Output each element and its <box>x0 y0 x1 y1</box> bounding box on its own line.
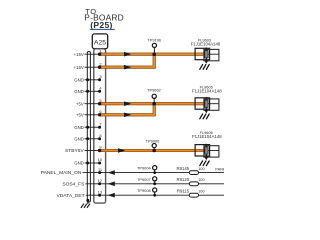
pin 12 junction dot <box>98 182 101 185</box>
svg-text:TP9004: TP9004 <box>137 166 151 171</box>
svg-text:+15V: +15V <box>74 65 84 70</box>
filter FL9605 <box>192 85 222 119</box>
arrow on +15V pin1 wire <box>124 52 131 57</box>
wire +5V pair (pins 5,6) orange <box>100 104 205 115</box>
test point TP9004 <box>137 166 157 174</box>
arrow on PANEL_MAIN_ON wire (into connector) <box>108 170 115 175</box>
svg-text:R9120: R9120 <box>177 177 190 182</box>
ground bus junction pin4 <box>86 90 89 93</box>
wire pin4 GND lead <box>85 90 100 92</box>
svg-text:TP9007: TP9007 <box>137 177 151 182</box>
svg-text:F1J1E104A148: F1J1E104A148 <box>192 89 222 94</box>
test point TP9006 <box>146 138 160 150</box>
pin 6 junction dot <box>98 113 101 116</box>
junction dot STBY5V TP <box>152 149 156 153</box>
svg-text:100: 100 <box>198 189 205 194</box>
wire pin3 GND lead <box>85 79 100 81</box>
svg-text:TP9008: TP9008 <box>137 188 151 193</box>
arrow on VDATA_DET wire (into connector) <box>108 193 115 198</box>
svg-text:GND: GND <box>74 125 84 130</box>
svg-text:+5V: +5V <box>76 101 84 106</box>
arrow on STBY5V wire <box>118 148 125 153</box>
svg-text:R9115: R9115 <box>177 189 190 194</box>
svg-text:+15V: +15V <box>74 52 84 57</box>
resistor R9120 <box>177 177 206 186</box>
ground bus junction pin10 <box>86 162 89 165</box>
svg-text:SOS4_FS: SOS4_FS <box>62 181 85 187</box>
svg-text:100: 100 <box>198 177 205 182</box>
junction dot +15V riser <box>152 52 156 56</box>
filter FL9603 <box>191 38 221 70</box>
wire pin8 GND lead <box>85 138 100 140</box>
wire STBY5V (pin 9) orange <box>100 149 205 152</box>
wire +15V pair (pins 1,2) orange <box>100 54 205 67</box>
svg-text:R9145: R9145 <box>177 166 190 171</box>
svg-text:12: 12 <box>98 178 103 183</box>
svg-text:TP9662: TP9662 <box>147 88 161 93</box>
resistor R9115 <box>177 189 206 198</box>
svg-text:F1J1E104A148: F1J1E104A148 <box>192 134 222 139</box>
ground bus junction pin8 <box>86 137 89 140</box>
svg-text:+5V: +5V <box>76 112 84 117</box>
svg-text:(P25): (P25) <box>90 20 113 30</box>
arrow on +5V pin5 wire <box>124 101 131 106</box>
ground bus junction pin3 <box>86 78 89 81</box>
pin 5 junction dot <box>98 102 101 105</box>
filter FL9606 <box>192 130 222 165</box>
arrow on +15V pin2 wire <box>124 65 131 70</box>
svg-text:TP9006: TP9006 <box>146 138 160 143</box>
svg-text:TP9196: TP9196 <box>147 38 161 43</box>
wire PANEL_MAIN_ON row <box>83 172 225 174</box>
svg-text:F1J1E104A148: F1J1E104A148 <box>191 41 221 46</box>
wire pin1 label lead <box>85 53 100 55</box>
pin 2 junction dot <box>98 66 101 69</box>
svg-text:GND: GND <box>74 161 84 166</box>
pin 10 junction dot <box>98 162 101 165</box>
pin 11 junction dot <box>98 171 101 174</box>
pin 7 junction dot <box>98 126 101 129</box>
test point TP9662 <box>147 88 161 104</box>
test point TP9196 <box>147 38 161 55</box>
svg-text:STBY5V: STBY5V <box>65 148 84 154</box>
svg-text:GND: GND <box>74 136 84 141</box>
wire SOS4_FS row <box>86 183 225 185</box>
svg-text:VDATA_DET: VDATA_DET <box>57 193 85 199</box>
connector A25 label box <box>92 34 107 49</box>
test point TP9008 <box>137 188 157 197</box>
wire pin2 label lead <box>85 66 100 68</box>
svg-text:10: 10 <box>98 157 103 162</box>
connector A25 body <box>94 49 106 203</box>
wire pin10 GND lead <box>85 162 100 164</box>
wire pin5 label lead <box>85 103 100 105</box>
connector shell bracket / ground bus <box>87 52 90 203</box>
svg-text:GND: GND <box>74 89 84 94</box>
svg-text:13: 13 <box>98 189 103 194</box>
resistor R9145 <box>177 166 206 175</box>
arrow on SOS4_FS wire (into connector) <box>108 182 115 187</box>
svg-text:PANEL_MAIN_ON: PANEL_MAIN_ON <box>41 170 82 176</box>
wire pin9 label lead <box>85 150 100 152</box>
ground bus junction bottom <box>86 199 89 202</box>
arrow on +5V pin6 wire <box>124 113 131 118</box>
chassis ground below connector <box>81 200 90 207</box>
svg-text:PANE: PANE <box>215 167 224 172</box>
svg-text:100: 100 <box>198 166 205 171</box>
pin 3 junction dot <box>98 78 101 81</box>
test point TP9007 <box>137 177 157 186</box>
svg-text:A25: A25 <box>94 40 106 47</box>
pin 13 junction dot <box>98 194 101 197</box>
pin 4 junction dot <box>98 90 101 93</box>
svg-text:GND: GND <box>74 77 84 82</box>
wire VDATA_DET row <box>86 194 224 196</box>
ground bus junction pin7 <box>86 126 89 129</box>
pin 8 junction dot <box>98 137 101 140</box>
junction dot +5V riser <box>152 102 156 106</box>
pin 1 junction dot <box>98 53 101 56</box>
wire pin7 GND lead <box>85 126 100 128</box>
pin 9 junction dot <box>98 149 101 152</box>
wire pin6 label lead <box>85 114 100 116</box>
